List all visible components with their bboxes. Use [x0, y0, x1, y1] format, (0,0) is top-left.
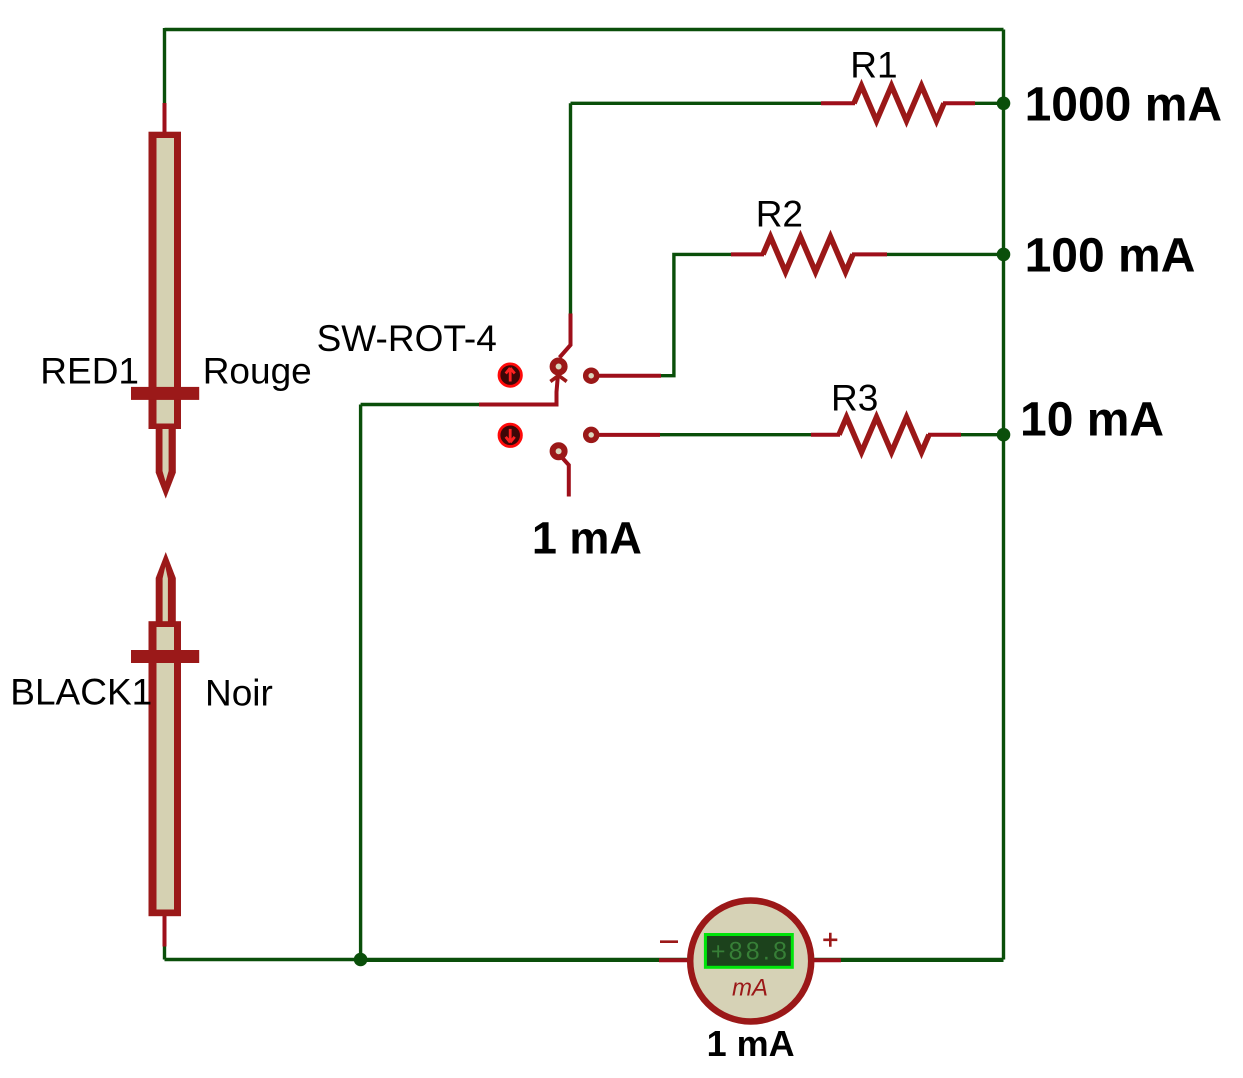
svg-text:1 mA: 1 mA	[532, 512, 642, 563]
pin RED1 stub	[163, 103, 167, 133]
switch SW-ROT-4 bottom throw	[553, 445, 569, 496]
svg-text:1000 mA: 1000 mA	[1025, 78, 1222, 131]
svg-text:Rouge: Rouge	[203, 351, 312, 392]
svg-text:R3: R3	[831, 378, 878, 419]
svg-text:1 mA: 1 mA	[707, 1023, 795, 1064]
wire left mid vertical to switch pole	[359, 405, 362, 960]
resistor R2	[763, 237, 853, 272]
ammeter meter body	[690, 901, 811, 1022]
wire switch pole horizontal	[361, 403, 479, 406]
pin switch pole left red	[479, 392, 557, 405]
wire switch contact 2 red	[597, 433, 660, 437]
pin meter left red	[659, 958, 690, 962]
wire meter left green	[361, 959, 660, 962]
svg-text:RED1: RED1	[40, 351, 139, 392]
wire R3 row	[659, 433, 1004, 436]
wire switch contact 1 red	[597, 374, 661, 378]
svg-text:10 mA: 10 mA	[1020, 394, 1164, 447]
switch button down	[499, 424, 521, 446]
wire meter right green	[840, 959, 1004, 962]
svg-text:mA: mA	[732, 975, 768, 1002]
resistor R3	[839, 417, 929, 452]
wire BLACK1 bottom lead	[163, 945, 166, 960]
svg-text:100 mA: 100 mA	[1025, 229, 1196, 282]
switch SW-ROT-4 rotor	[550, 361, 566, 405]
svg-text:R1: R1	[850, 45, 897, 86]
wire top horizontal net	[165, 28, 1004, 31]
switch button up	[499, 364, 521, 386]
wire bottom horizontal net	[165, 958, 1004, 961]
switch SW-ROT-4 contact pin 2	[586, 429, 597, 440]
wire right vertical rail	[1002, 30, 1005, 960]
resistor R1	[854, 86, 944, 121]
ammeter plus mark	[823, 933, 837, 947]
wire switch top feed vertical	[569, 103, 572, 313]
pin BLACK1 stub	[163, 916, 167, 947]
wire R2 row	[660, 254, 1004, 375]
svg-text:R2: R2	[756, 193, 803, 234]
junction node bottom net	[354, 953, 368, 967]
wire RED1 top lead	[163, 28, 166, 103]
pin R3 leads	[811, 433, 961, 437]
pin meter right red	[812, 958, 841, 962]
junction node R1 rail	[997, 97, 1011, 111]
probe RED1	[131, 132, 199, 499]
svg-text:BLACK1: BLACK1	[10, 672, 152, 713]
wire R1 row	[571, 102, 1004, 105]
svg-text:SW-ROT-4: SW-ROT-4	[317, 318, 497, 359]
pin R2 leads	[731, 252, 887, 256]
pin switch top feed red	[560, 314, 571, 358]
junction node R3 rail	[997, 428, 1011, 442]
pin R1 leads	[821, 101, 975, 105]
svg-text:+88.8: +88.8	[711, 938, 790, 966]
junction node R2 rail	[997, 248, 1011, 262]
switch SW-ROT-4 contact pin 1	[586, 370, 597, 381]
probe BLACK1	[131, 552, 199, 916]
svg-text:Noir: Noir	[205, 673, 273, 714]
ammeter minus mark	[660, 940, 678, 943]
